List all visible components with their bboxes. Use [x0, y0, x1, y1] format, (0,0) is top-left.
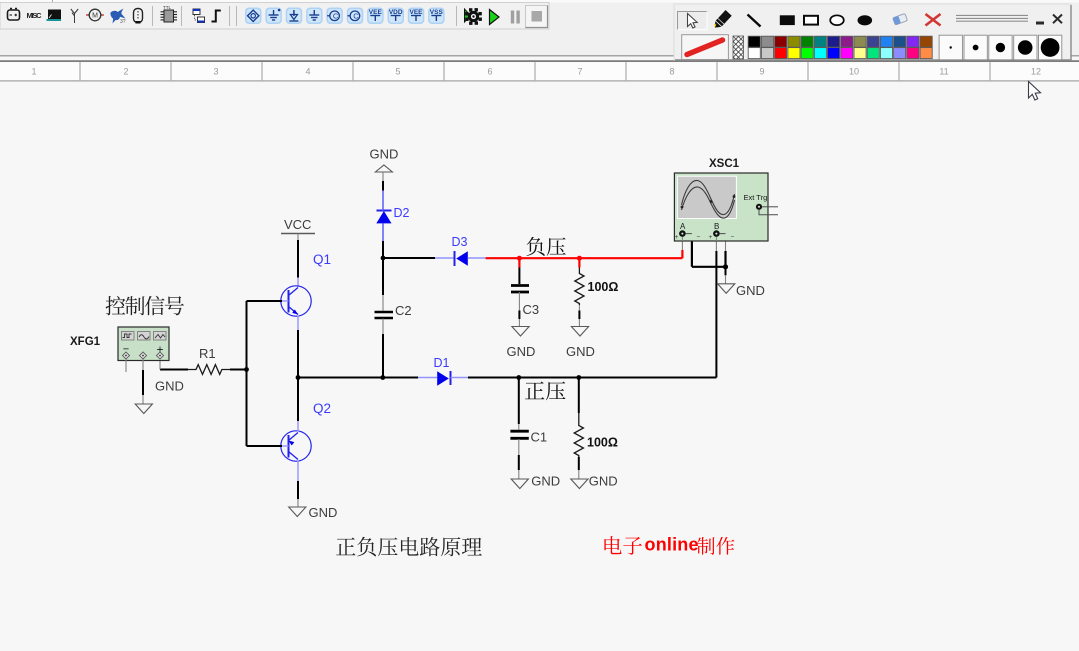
svg-text:GND: GND [566, 344, 595, 359]
svg-text:R1: R1 [199, 346, 216, 361]
svg-text:GND: GND [736, 283, 765, 298]
svg-text:4: 4 [305, 67, 310, 77]
svg-text:GND: GND [507, 344, 536, 359]
svg-text:2: 2 [123, 67, 128, 77]
svg-text:C: C [333, 12, 339, 21]
svg-text:C1: C1 [531, 430, 548, 445]
svg-text:GND: GND [589, 473, 618, 488]
svg-text:Ext Trg: Ext Trg [744, 193, 768, 202]
svg-text:XSC1: XSC1 [709, 158, 740, 170]
svg-text:6: 6 [487, 67, 492, 77]
svg-text:1: 1 [31, 67, 36, 77]
svg-text:VCC: VCC [284, 217, 311, 232]
svg-text:XFG1: XFG1 [70, 336, 101, 348]
svg-text:B: B [714, 222, 719, 231]
svg-text:8: 8 [669, 67, 674, 77]
svg-text:C: C [353, 12, 359, 21]
svg-text:online: online [645, 535, 699, 555]
svg-text:D1: D1 [434, 356, 450, 370]
svg-text:12: 12 [1031, 67, 1041, 77]
svg-text:−: − [731, 234, 735, 241]
svg-text:3: 3 [213, 67, 218, 77]
svg-text:D3: D3 [452, 235, 468, 249]
svg-text:Q1: Q1 [313, 252, 331, 267]
svg-text:3?: 3? [120, 19, 126, 25]
svg-text:+: + [709, 234, 713, 241]
svg-text:D2: D2 [394, 206, 410, 220]
svg-text:GND: GND [309, 505, 338, 520]
svg-text:5: 5 [395, 67, 400, 77]
svg-text:MISC: MISC [27, 11, 43, 20]
svg-text:9: 9 [759, 67, 764, 77]
svg-text:10: 10 [849, 67, 859, 77]
svg-text:−: − [697, 234, 701, 241]
svg-text:GND: GND [155, 379, 184, 394]
svg-text:Q2: Q2 [313, 401, 331, 416]
svg-text:C2: C2 [395, 303, 412, 318]
svg-text:GND: GND [531, 473, 560, 488]
svg-text:GND: GND [370, 147, 399, 162]
svg-text:100Ω: 100Ω [588, 280, 619, 294]
svg-text:+: + [675, 234, 679, 241]
svg-text:100Ω: 100Ω [587, 436, 618, 450]
svg-text:7: 7 [577, 67, 582, 77]
svg-text:11: 11 [939, 67, 948, 77]
svg-text:TTL: TTL [163, 5, 171, 10]
svg-text:M: M [92, 13, 98, 20]
svg-text:C3: C3 [523, 302, 540, 317]
svg-text:A: A [680, 222, 686, 231]
